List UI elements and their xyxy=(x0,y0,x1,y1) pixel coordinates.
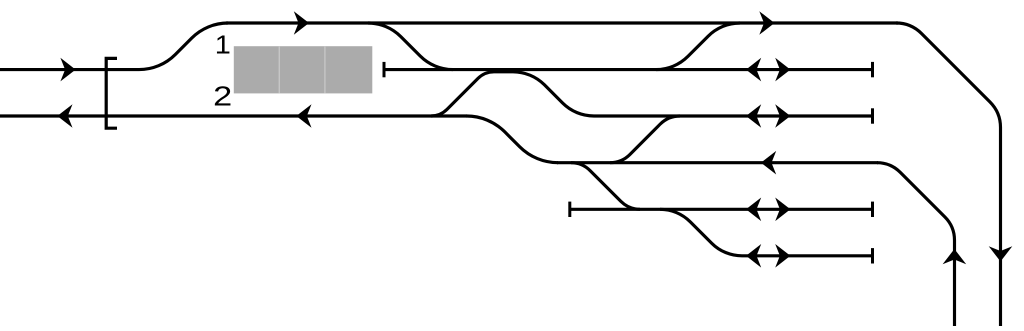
arrow right on approach line xyxy=(60,58,75,82)
turnout curve platform1-to-main xyxy=(656,23,740,70)
crossover hump left rise xyxy=(431,72,494,116)
buffer tick siding 5 right end xyxy=(871,202,874,217)
arrow left on track 2 (mid) xyxy=(296,104,311,128)
platform xyxy=(234,46,372,93)
arrow down on main exit vertical xyxy=(989,246,1013,261)
track 1 main line (top) xyxy=(226,21,898,24)
svg-text:1: 1 xyxy=(215,30,231,59)
svg-text:2: 2 xyxy=(213,81,232,112)
entry bracket symbol xyxy=(106,58,117,128)
platform divider 1 xyxy=(278,46,280,93)
crossover hump crest xyxy=(494,70,513,73)
turnout curve goods-to-track2 xyxy=(610,116,680,163)
double arrow left on siding 5 xyxy=(746,198,761,222)
buffer tick siding 5 left end xyxy=(568,202,571,217)
turnout curve track2-to-goods xyxy=(467,116,559,163)
platform divider 2 xyxy=(324,46,326,93)
double arrow right on siding 6 xyxy=(775,244,790,268)
siding track 6 xyxy=(742,254,873,257)
goods line corner to vertical exit xyxy=(877,163,955,326)
goods line (track below 2) xyxy=(557,161,878,164)
arrow right on main line (right) xyxy=(759,11,774,35)
arrow left on track 2 (far left) xyxy=(57,104,72,128)
crossover hump right fall xyxy=(513,72,594,116)
platform track 1 xyxy=(384,68,873,71)
turnout curve goods-to-siding5 xyxy=(571,163,640,210)
buffer tick platform track 1 right end xyxy=(871,62,874,77)
arrow right on main line (left) xyxy=(294,11,309,35)
double arrow right on platform track 1 xyxy=(775,58,790,82)
track 2 line (right segment) xyxy=(594,114,873,117)
siding track 5 xyxy=(570,208,873,211)
buffer tick platform track 1 left end xyxy=(383,62,386,77)
main line corner to vertical exit xyxy=(896,23,1001,326)
arrow up on goods exit vertical xyxy=(943,249,967,264)
double arrow left on siding 6 xyxy=(746,244,761,268)
track 2 approach line (left) xyxy=(0,68,139,71)
track 2 line (left segment) xyxy=(0,114,467,117)
turnout curve approach-to-main xyxy=(139,23,228,70)
arrow left on goods line xyxy=(761,151,776,175)
buffer tick track 2 right end xyxy=(871,108,874,123)
buffer tick siding 6 right end xyxy=(871,248,874,263)
double arrow left on track 2 xyxy=(746,104,761,128)
turnout curve main-to-platform-track-1 xyxy=(368,23,453,70)
double arrow right on track 2 xyxy=(775,104,790,128)
double arrow left on platform track 1 xyxy=(746,58,761,82)
double arrow right on siding 5 xyxy=(775,198,790,222)
turnout curve siding5-to-siding6 xyxy=(660,209,742,256)
